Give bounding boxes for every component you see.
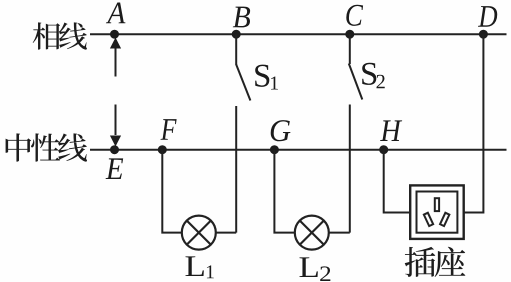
label lamp L2 (300, 257, 318, 277)
node H (junction dot) (379, 145, 388, 154)
arrow down (toward neutral wire at E) (110, 105, 121, 147)
wire: neutral line (bottom horizontal) (90, 149, 507, 151)
label 相线 (live wire) (33, 22, 87, 49)
switch S2 blade (open) (349, 64, 363, 100)
label 插座 (socket) (405, 247, 466, 277)
switch S1 blade (open) (236, 65, 250, 101)
wire: lamp L1 right side up to switch S1 (216, 232, 236, 234)
label node E (106, 158, 124, 179)
label node F (161, 119, 177, 140)
wire: node F down to lamp L1 (162, 150, 182, 233)
switch S1 upper stub from node B (235, 34, 237, 65)
wire: node G down to lamp L2 (274, 150, 294, 233)
label node G (271, 120, 291, 141)
lamp L2 (circle with X) (295, 216, 329, 250)
label node C (346, 5, 363, 26)
node E (junction dot) (110, 145, 119, 154)
lamp L1 (circle with X) (182, 216, 216, 250)
label node H (380, 120, 402, 141)
wire: live line (top horizontal) (90, 33, 507, 35)
label node D (478, 6, 497, 27)
wire: S1 lower contact down to lamp L1 (crosses neutral) (235, 106, 237, 233)
switch S2 upper stub from node C (349, 34, 351, 64)
arrow up (toward live wire at A) (110, 38, 121, 77)
label lamp L1 (186, 256, 204, 276)
node F (junction dot) (158, 145, 167, 154)
node A (junction dot) (110, 30, 119, 39)
label switch S2 (362, 63, 376, 85)
node D (junction dot) (479, 30, 488, 39)
node B (junction dot) (232, 30, 241, 39)
label node A (106, 3, 126, 24)
label 中性线 (neutral wire) (6, 133, 87, 161)
label switch S1 (255, 65, 269, 87)
node G (junction dot) (270, 145, 279, 154)
label node B (233, 7, 250, 28)
wire: node H down and right to socket (384, 150, 411, 213)
node C (junction dot) (345, 30, 354, 39)
wire: S2 lower contact down to lamp L2 (crosses neutral) (349, 105, 351, 233)
wire: lamp L2 right side up to switch S2 (329, 232, 350, 234)
socket symbol 插座 (outlet box with 3 slots) (410, 185, 464, 239)
wire: node D down and left to socket (crosses neutral) (464, 34, 484, 212)
